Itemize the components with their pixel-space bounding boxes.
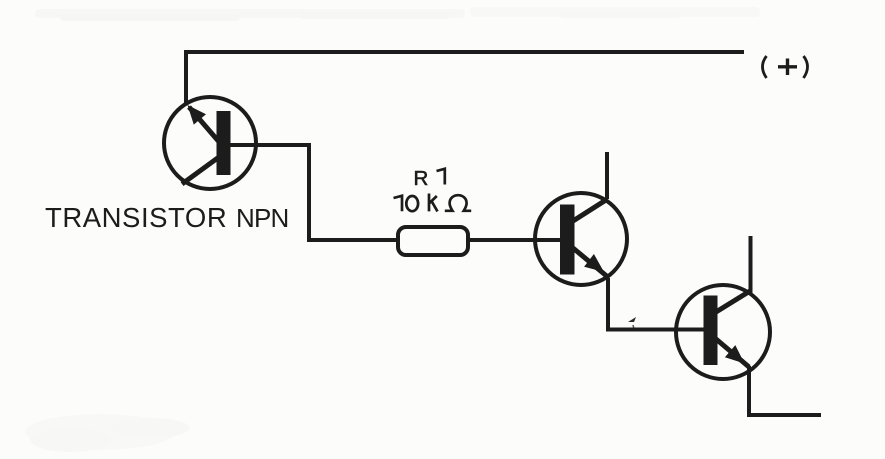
label 10kΩ (394, 194, 472, 212)
resistor R1 (398, 227, 468, 255)
scan smudge top (35, 7, 760, 21)
wire: Q3 emitter to bottom rail (749, 366, 821, 415)
svg-text:TRANSISTOR: TRANSISTOR (45, 202, 227, 233)
label (+) supply (763, 56, 808, 78)
scan smudge bottom-left (25, 414, 190, 452)
svg-text:NPN: NPN (236, 203, 289, 233)
wire: R1 to Q2 base (468, 238, 560, 242)
wire: Q3 collector stub (749, 236, 753, 295)
transistor Q2 NPN (535, 193, 627, 285)
transistor Q1 NPN (164, 97, 256, 189)
wire: positive supply rail (top) (186, 52, 744, 104)
wire: Q2 emitter to Q3 base (608, 278, 704, 330)
wire: Q2 collector stub (605, 152, 609, 199)
svg-text:R: R (414, 167, 429, 190)
transistor Q3 NPN (676, 285, 770, 379)
label R1 (414, 167, 445, 190)
wire: Q1 collector to corner (230, 145, 398, 240)
stray ink tick near Q3 base wire (628, 317, 636, 322)
